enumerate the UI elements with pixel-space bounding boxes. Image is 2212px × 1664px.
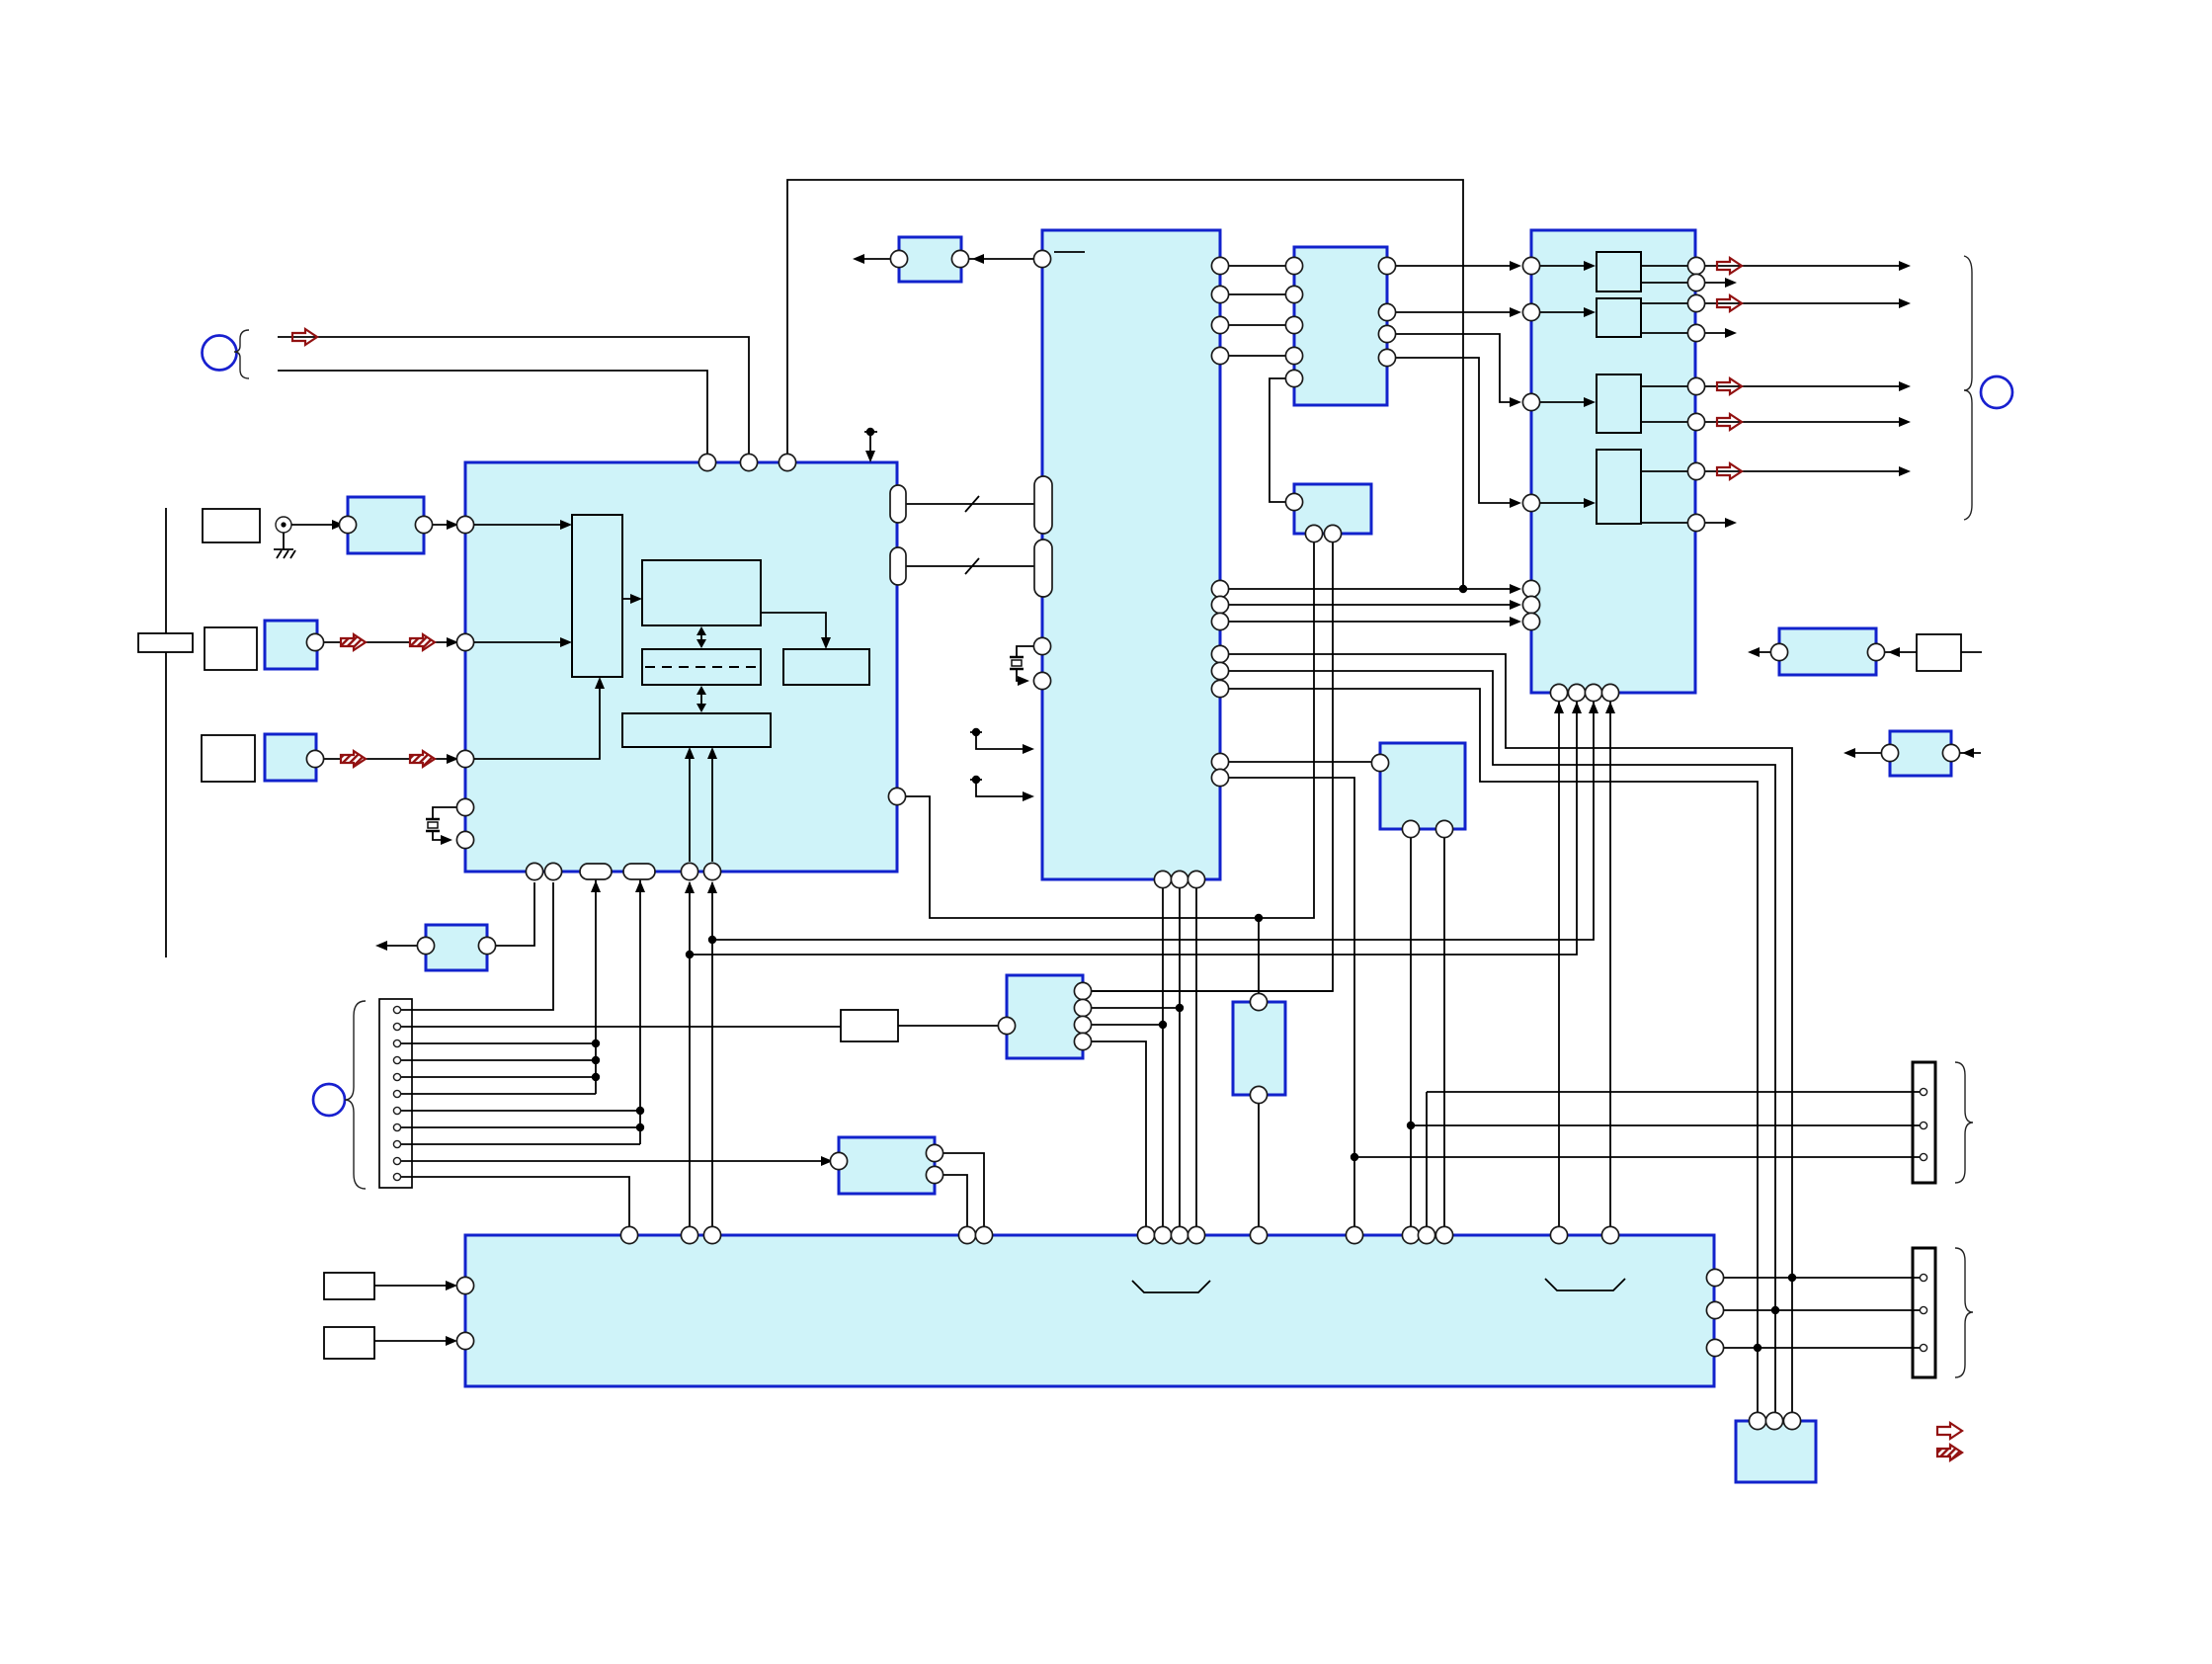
wires U201 to U301 rows (1229, 266, 1285, 356)
connector CN401 (1913, 1062, 1935, 1183)
U401 internal wiring row2 (1540, 303, 1687, 333)
filter K box (841, 1010, 898, 1041)
wire U301 to U401 row1 (1396, 265, 1518, 267)
pins U502 (1250, 993, 1267, 1103)
pin U101 right (888, 788, 905, 804)
CN101 pin10 wire to U503 (401, 1160, 831, 1162)
internal updown arrow a (700, 632, 702, 642)
bus wire U101 to U201 lower (906, 565, 1034, 567)
pins U601 right (1706, 1269, 1723, 1356)
U501 row4 wire down (1092, 1041, 1146, 1226)
pins U504 (1371, 754, 1452, 837)
IC U301 interface block (1294, 247, 1387, 405)
internal arrows into controller from pins (690, 751, 712, 862)
power stub into U101 top (864, 432, 877, 456)
pins H (417, 937, 495, 954)
red arrow tuner line (292, 329, 317, 345)
internal arrow RF to signal processor (622, 598, 639, 600)
ground of J101 (274, 533, 293, 549)
wire U301 to U401 row3 elbow (1396, 334, 1518, 402)
arrowhead into U101 top (865, 451, 875, 462)
pins U501 (998, 982, 1091, 1049)
wire U201 to U401 row 612 (1229, 604, 1518, 606)
pins U602 top (1749, 1412, 1800, 1429)
IC U503 block (839, 1137, 935, 1194)
crystal X201 at U201 (1017, 646, 1033, 681)
input amp G2 block (265, 621, 317, 669)
wire U301 to U401 row4 elbow (1396, 358, 1518, 503)
wire: G1 to U101 (433, 524, 457, 526)
wire: jack to G1 (291, 524, 340, 526)
long wire U201 row679 to right bus b (1229, 671, 1775, 1412)
IC U501 key scan block (1007, 975, 1083, 1058)
bus slash lower (965, 558, 979, 574)
wire CN101 pin1 to U101 bottom (401, 882, 553, 1010)
bus pill U101 bottom b (623, 864, 655, 879)
red arrow bottom right open (1937, 1423, 1962, 1439)
long wire U201 row662 to right bus a (1229, 654, 1792, 1412)
CN101 pin5 wire (401, 1076, 596, 1078)
pin G3 (306, 750, 323, 767)
wire U201 row787 down to U601 (1229, 778, 1354, 1226)
internal block: register (783, 649, 869, 685)
junction dots bus b (636, 1107, 644, 1115)
U201 bottom col c (1195, 888, 1197, 1226)
wire: U101 top pin to U401 left loop (787, 180, 1463, 589)
internal wire signal processor to register (761, 613, 826, 646)
brace tuner (234, 330, 249, 378)
internal block: RAM (dashed split) (642, 649, 761, 685)
U401 out long 391 (1705, 385, 1905, 387)
reset IC U502 block (1233, 1002, 1285, 1095)
wire U504 pin b down (1443, 838, 1445, 1226)
bus pill U101 right b (890, 547, 906, 585)
U401 out short 286 (1705, 282, 1731, 284)
P1 in from WR (1885, 651, 1917, 653)
internal DAC block R2 (1597, 298, 1641, 337)
pin U302 left (1285, 493, 1302, 510)
U401 out short 337 (1705, 332, 1731, 334)
pins U201 bottom (1154, 871, 1204, 887)
pin U201 left top (1033, 250, 1050, 267)
internal block: signal processor (642, 560, 761, 625)
internal DAC block R1 (1597, 252, 1641, 291)
pins P1 (1770, 643, 1884, 660)
CN101 inner pins (393, 1006, 400, 1180)
power stub to U201 left a (970, 732, 1030, 749)
internal block: RF processor (572, 515, 622, 677)
sensor W6 wire (374, 1340, 454, 1342)
label box W2 (205, 627, 257, 670)
internal arrow into RF processor row531 (560, 520, 572, 530)
pins U201 right top group (1211, 257, 1228, 364)
label box W1 (203, 509, 260, 542)
pins U301 left (1285, 257, 1302, 386)
pins U101 left (456, 516, 473, 848)
pins U401 left (1522, 257, 1539, 629)
red arrow out row269 (1717, 258, 1742, 274)
junction dot col698 (686, 951, 694, 958)
bus pill U201 left a (1034, 476, 1052, 534)
CN101 pin11 wire down to U601 (401, 1177, 629, 1226)
IC U201 DSP block (1042, 230, 1220, 879)
long wire U201 row697 to right bus c (1229, 689, 1758, 1412)
red hatched arrow G3 a (341, 751, 366, 767)
pins U503 (830, 1144, 942, 1183)
internal arrow into RF processor row650 (560, 637, 572, 647)
U401 out long 477 (1705, 470, 1905, 472)
CN101 pin9 wire (401, 1143, 640, 1145)
red hatched arrow G2 a (341, 634, 366, 650)
arrowhead into U101 line in (447, 520, 458, 530)
pins U601 top (620, 1226, 1618, 1243)
bus wire U101 to U201 upper (906, 503, 1034, 505)
P2 in right (1960, 752, 1981, 754)
input amp G1 block (348, 497, 424, 553)
bus slash upper (965, 496, 979, 512)
arrowhead into A101 right pin (972, 254, 984, 264)
U401 bottom pin2 elbow to U101 pin (690, 702, 1577, 955)
wire: tuner out B to U101 top pin (278, 371, 707, 462)
left rail lower (165, 652, 167, 957)
label box W3 (202, 735, 255, 782)
connector CN101 (379, 999, 412, 1188)
pins U201 crystal (1033, 637, 1050, 689)
wire U504 pin a down (1410, 838, 1412, 1226)
IC U602 block (1736, 1421, 1816, 1482)
IC U401 audio DAC block (1531, 230, 1695, 693)
U101 bus pill a column (595, 879, 597, 1094)
pins U101 top (698, 454, 795, 470)
tick inside U201 (1054, 251, 1085, 253)
U502 bottom wire (1258, 1104, 1260, 1226)
red arrow out row307 (1717, 295, 1742, 311)
CN401 inner pins (1920, 1088, 1926, 1160)
pins U401 bottom (1550, 684, 1618, 701)
U201 bottom col b (1179, 888, 1181, 1226)
internal block: controller (622, 713, 771, 747)
connector CN402 (1913, 1248, 1935, 1377)
CN101 pin4 wire (401, 1059, 596, 1061)
internal updown arrow b (700, 692, 702, 707)
wire: tuner out A to U101 top pin (278, 337, 749, 462)
U401 bottom pin1 down to U601 (1558, 702, 1560, 1226)
pins A101 (890, 250, 968, 267)
U501 row3 wire (1092, 1024, 1163, 1026)
hat mark b inside U601 (1545, 1279, 1625, 1290)
left rail upper (165, 508, 167, 633)
U201 bottom col a (1162, 888, 1164, 1226)
wire U302 out b to U501 (1092, 534, 1333, 991)
U503 out1 (943, 1153, 984, 1226)
wire U301 pin5 to U302 (1270, 378, 1285, 502)
brace audio out (1964, 256, 1972, 520)
power stub to U201 left b (970, 780, 1030, 796)
wire: G2 to U101 (324, 641, 457, 643)
pins G1 (339, 516, 432, 533)
CN402 inner pins (1920, 1274, 1926, 1351)
U401 internal wiring row4 (1540, 471, 1687, 523)
internal DAC block R3 (1597, 374, 1641, 433)
pins U302 bottom (1305, 525, 1341, 541)
U101 pin698 column to U601 (689, 882, 691, 1226)
pins P2 (1881, 744, 1959, 761)
driver H block (426, 925, 487, 970)
junction power stub U101 (866, 428, 874, 436)
U501 row2 wire (1092, 1007, 1180, 1009)
arrowheads into U401 bottom pins (1554, 702, 1564, 713)
blue circle ref audio out (1981, 376, 2012, 408)
U401 out long 307 (1705, 302, 1905, 304)
filter K out to U501 (898, 1025, 998, 1027)
pins U201 right low group (1211, 753, 1228, 786)
dashed divider (645, 666, 758, 668)
arrowhead into U101 optical2 (447, 754, 458, 764)
U401 internal wiring row1 (1540, 266, 1687, 283)
U601 right wire3 to CN402 (1724, 1347, 1921, 1349)
internal DAC block R4 (1597, 450, 1641, 524)
U503 out2 (943, 1175, 967, 1226)
pin G2 (306, 633, 323, 650)
U501 row1 wire to U302 col (1092, 990, 1333, 992)
blue circle ref CN101 (313, 1084, 345, 1116)
crystal X101 at U101 (433, 807, 456, 840)
IC U101 servo/RF amp block (465, 462, 897, 872)
bus pill U101 right a (890, 485, 906, 523)
bus pill U101 bottom a (580, 864, 612, 879)
U401 bottom pin4 down to U601 (1609, 702, 1611, 1226)
U401 out long line 269 (1705, 265, 1905, 267)
wire: amp A101 out left (856, 258, 890, 260)
pins U401 right (1687, 257, 1704, 531)
arrowhead into G1 (332, 520, 344, 530)
red hatched arrow G3 b (410, 751, 435, 767)
red arrow bottom right hatched (1937, 1445, 1962, 1460)
red arrow out row391 (1717, 378, 1742, 394)
CN101 pin7 wire (401, 1110, 640, 1112)
U401 out short 529 (1705, 522, 1731, 524)
wire: U201 to A101 (969, 258, 1033, 260)
U502 top wire (1258, 918, 1260, 993)
brace CN401 (1955, 1062, 1973, 1183)
CN101 pin2 wire to filter K (401, 1026, 841, 1028)
wire H block out left (378, 945, 417, 947)
U401 bottom pin3 elbow to U101 pin (712, 702, 1594, 940)
sensor box W6 (324, 1327, 374, 1359)
CN401 row2 wire (1411, 1124, 1921, 1126)
brace CN101 (345, 1001, 366, 1189)
blue circle ref tuner (203, 336, 237, 371)
load box WR (1917, 634, 1961, 671)
wire U201 to U401 row 596 (1229, 588, 1518, 590)
label box W4 (138, 633, 193, 652)
wire U201 to U401 row 629 (1229, 621, 1518, 623)
RCA jack J101 (276, 517, 291, 533)
CN101 pin6 wire (401, 1093, 596, 1095)
U601 right wire2 to CN402 (1724, 1309, 1921, 1311)
bus pill U201 left b (1034, 540, 1052, 597)
hat mark a inside U601 (1132, 1281, 1210, 1292)
pins U201 right mid group (1211, 580, 1228, 697)
junction dot col721 (708, 936, 716, 944)
P2 out left (1846, 752, 1881, 754)
brace CN402 (1955, 1248, 1973, 1377)
internal wire row768 up into RF processor (474, 680, 600, 759)
wire: U101 right pin to U302 via bottom run (906, 534, 1314, 918)
wire H block to U101 bottom (496, 882, 534, 946)
pins U101 bottom (526, 863, 720, 879)
sensor W5 wire (374, 1285, 454, 1287)
U101 bus pill b column (639, 879, 641, 1144)
CN401 row3 wire (1354, 1156, 1921, 1158)
U401 out long 427 (1705, 421, 1905, 423)
IC U601 system control block (465, 1235, 1714, 1386)
red arrow out row477 (1717, 463, 1742, 479)
red arrow out row427 (1717, 414, 1742, 430)
CN401 row1 wire (1427, 1092, 1921, 1226)
amp A101 block (899, 237, 961, 282)
U601 right wire1 to CN402 (1724, 1277, 1921, 1279)
U401 internal wiring row3 (1540, 386, 1687, 422)
wire: G3 to U101 (324, 758, 457, 760)
arrowhead into U101 optical1 (447, 637, 458, 647)
CN101 pin8 wire (401, 1126, 640, 1128)
wire U201 row771 to U504 (1229, 761, 1371, 763)
WR right stub (1961, 651, 1982, 653)
regulator P1 block (1779, 628, 1876, 675)
wire U301 to U401 row2 (1396, 311, 1518, 313)
arrowhead left of A101 (853, 254, 864, 264)
input amp G3 block (265, 734, 316, 781)
pins U301 right (1378, 257, 1395, 366)
junction dots bus a (592, 1040, 600, 1047)
sensor box W5 (324, 1273, 374, 1299)
pins U601 left (456, 1277, 473, 1349)
P1 out left (1751, 651, 1770, 653)
IC U302 buffer block (1294, 484, 1371, 534)
red hatched arrow G2 b (410, 634, 435, 650)
IC U504 block (1380, 743, 1465, 829)
U101 pin721 column to U601 (711, 882, 713, 1226)
CN101 pin3 wire (401, 1042, 596, 1044)
regulator P2 block (1890, 731, 1951, 776)
